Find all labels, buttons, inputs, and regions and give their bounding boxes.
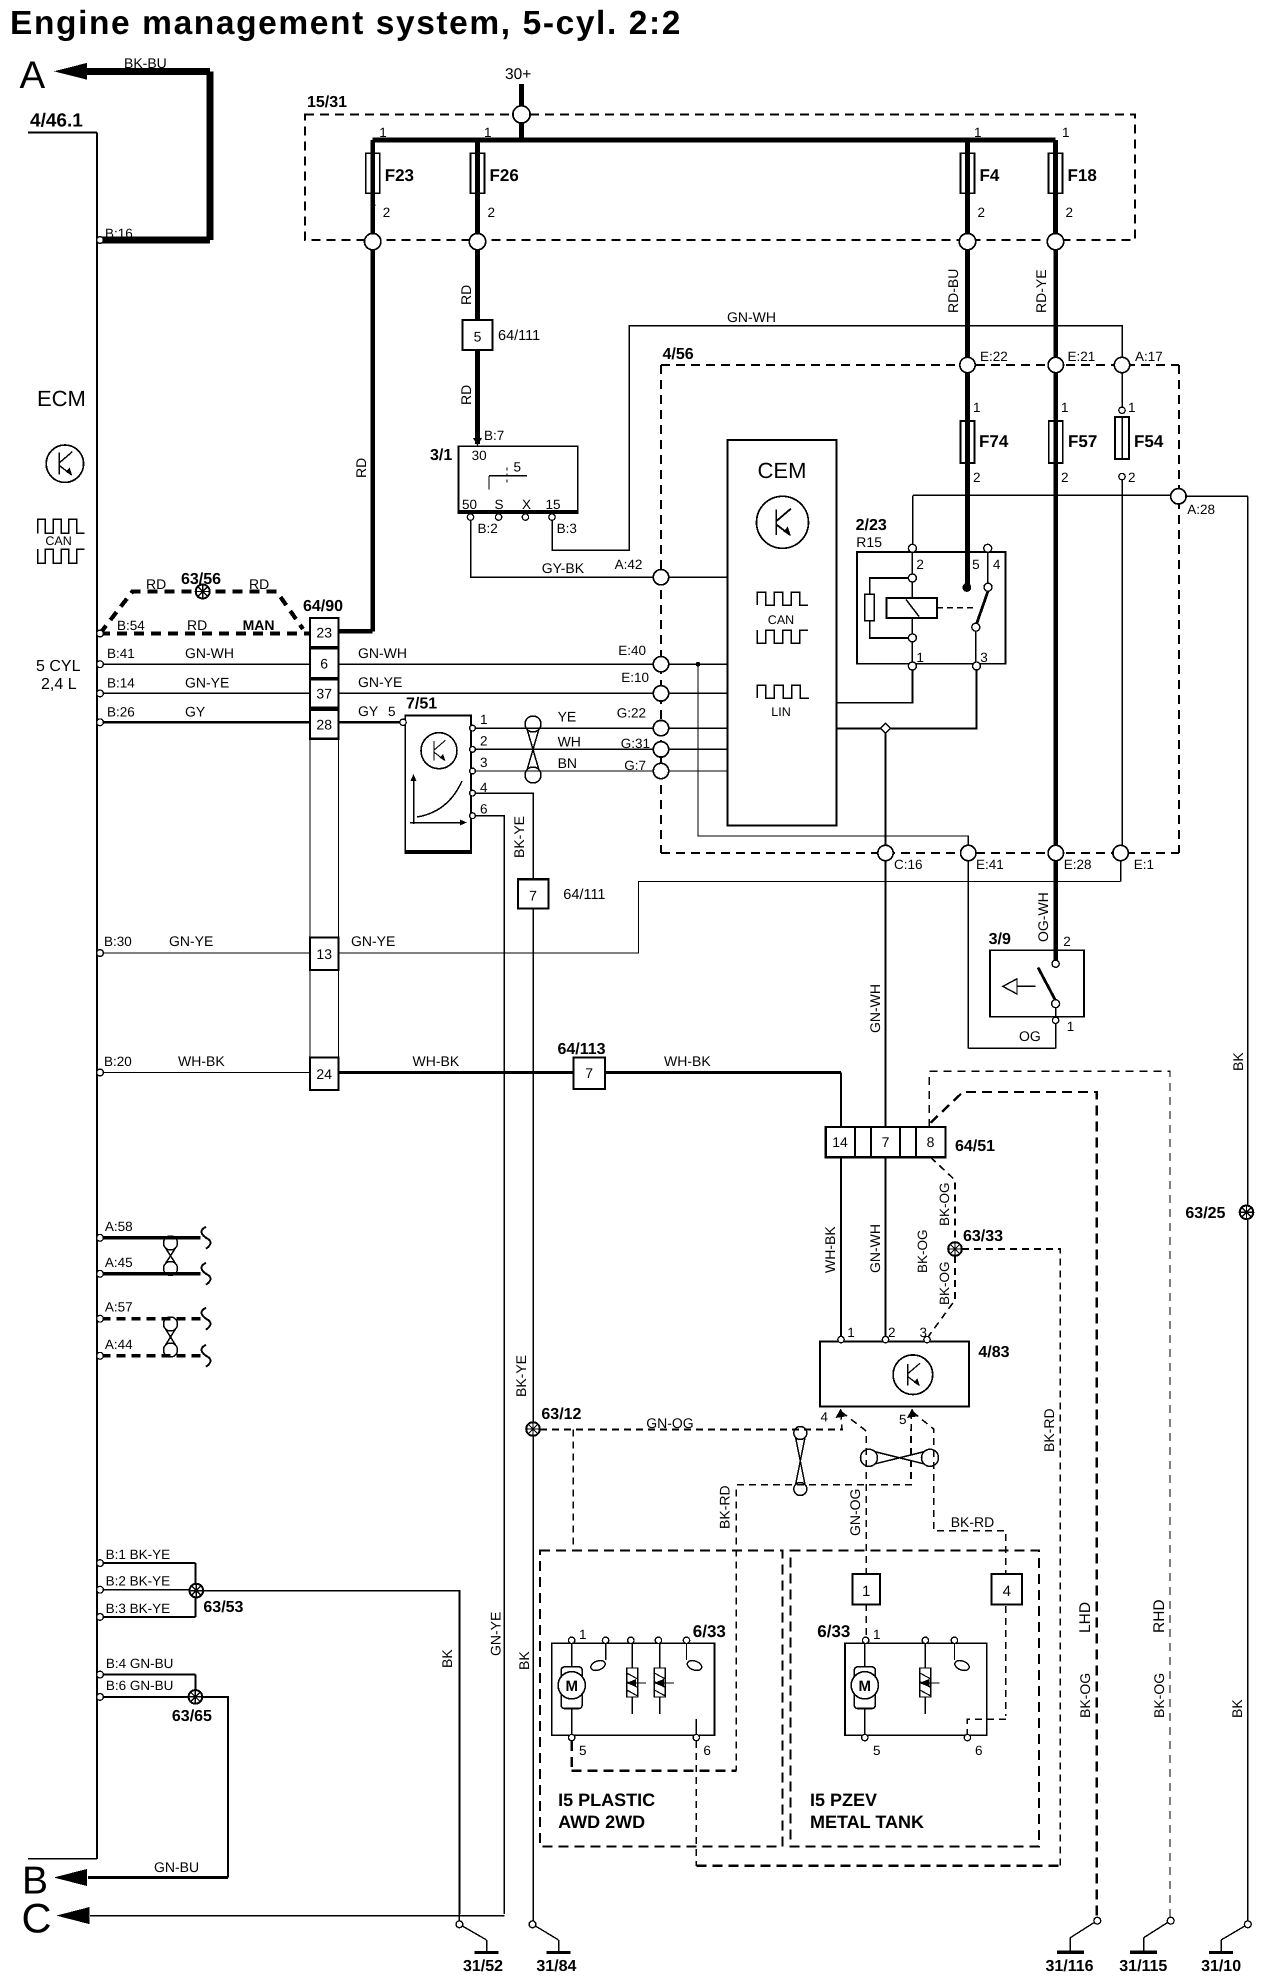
svg-text:S: S: [495, 497, 504, 512]
svg-text:63/25: 63/25: [1185, 1205, 1225, 1222]
svg-text:24: 24: [316, 1066, 332, 1082]
svg-text:63/53: 63/53: [203, 1599, 243, 1616]
svg-text:15/31: 15/31: [307, 94, 347, 111]
svg-text:RD: RD: [146, 576, 166, 592]
svg-text:15: 15: [546, 497, 561, 512]
svg-text:5: 5: [899, 1412, 907, 1427]
svg-text:E:28: E:28: [1064, 857, 1092, 872]
svg-text:7: 7: [585, 1065, 593, 1081]
svg-text:GN-WH: GN-WH: [867, 984, 883, 1033]
svg-text:37: 37: [316, 686, 332, 702]
svg-text:3: 3: [480, 755, 488, 770]
svg-text:6: 6: [480, 802, 488, 817]
svg-text:3: 3: [920, 1325, 928, 1340]
svg-text:BK-OG: BK-OG: [937, 1261, 952, 1305]
svg-text:ECM: ECM: [37, 386, 86, 411]
svg-text:E:22: E:22: [980, 349, 1008, 364]
svg-text:F23: F23: [385, 166, 414, 185]
svg-text:14: 14: [832, 1134, 848, 1150]
svg-text:BK-OG: BK-OG: [915, 1229, 930, 1273]
svg-text:A:17: A:17: [1135, 349, 1163, 364]
svg-text:GN-YE: GN-YE: [351, 933, 395, 949]
svg-text:2: 2: [488, 205, 496, 220]
svg-text:B:3: B:3: [557, 521, 577, 536]
svg-text:B:6 GN-BU: B:6 GN-BU: [106, 1678, 174, 1693]
svg-text:GN-OG: GN-OG: [646, 1415, 693, 1431]
svg-text:64/113: 64/113: [558, 1041, 606, 1058]
svg-text:31/52: 31/52: [463, 1958, 503, 1975]
svg-text:B:20: B:20: [104, 1054, 132, 1069]
svg-text:2: 2: [480, 734, 488, 749]
svg-text:1: 1: [480, 712, 488, 727]
svg-text:WH-BK: WH-BK: [822, 1226, 838, 1273]
svg-text:7: 7: [529, 888, 537, 904]
svg-text:1: 1: [862, 1583, 870, 1600]
svg-text:2: 2: [1066, 205, 1074, 220]
svg-text:3/1: 3/1: [430, 447, 452, 464]
svg-text:A:28: A:28: [1187, 502, 1215, 517]
svg-text:1: 1: [484, 125, 492, 140]
svg-text:OG-WH: OG-WH: [1035, 892, 1051, 942]
svg-text:BK-YE: BK-YE: [511, 816, 527, 858]
svg-text:RD: RD: [458, 285, 474, 305]
svg-text:BK: BK: [439, 1649, 455, 1668]
svg-text:RD-YE: RD-YE: [1033, 269, 1049, 313]
svg-text:5: 5: [474, 329, 482, 345]
svg-text:5: 5: [873, 1743, 881, 1758]
svg-text:63/12: 63/12: [541, 1406, 581, 1423]
svg-text:1: 1: [1067, 1019, 1075, 1034]
svg-text:6/33: 6/33: [693, 1622, 726, 1641]
svg-text:CEM: CEM: [758, 458, 807, 483]
svg-text:7: 7: [882, 1134, 890, 1150]
svg-text:31/10: 31/10: [1201, 1958, 1241, 1975]
svg-text:R15: R15: [856, 534, 882, 550]
svg-text:B:54: B:54: [117, 618, 145, 633]
svg-text:8: 8: [927, 1134, 935, 1150]
svg-text:CAN: CAN: [768, 613, 794, 627]
svg-text:F57: F57: [1068, 432, 1097, 451]
svg-text:E:21: E:21: [1068, 349, 1096, 364]
svg-text:BK-OG: BK-OG: [1151, 1673, 1167, 1718]
svg-text:6: 6: [703, 1743, 711, 1758]
svg-text:GY: GY: [358, 703, 379, 719]
svg-text:RD: RD: [458, 385, 474, 405]
svg-text:64/51: 64/51: [955, 1138, 995, 1155]
svg-text:F4: F4: [980, 166, 1000, 185]
svg-text:BK-RD: BK-RD: [1041, 1408, 1057, 1452]
svg-text:4: 4: [993, 557, 1001, 572]
svg-text:GN-WH: GN-WH: [358, 645, 407, 661]
svg-text:B:14: B:14: [107, 675, 135, 690]
svg-text:31/84: 31/84: [536, 1958, 576, 1975]
svg-text:4: 4: [820, 1410, 828, 1425]
svg-text:B:26: B:26: [107, 704, 135, 719]
svg-text:13: 13: [316, 946, 332, 962]
svg-text:WH-BK: WH-BK: [664, 1053, 711, 1069]
svg-text:3/9: 3/9: [989, 931, 1011, 948]
svg-text:2: 2: [383, 205, 391, 220]
svg-text:28: 28: [316, 716, 332, 732]
svg-text:A:44: A:44: [105, 1337, 133, 1352]
svg-text:BK: BK: [1229, 1699, 1245, 1718]
svg-text:31/115: 31/115: [1119, 1958, 1167, 1975]
svg-text:C: C: [22, 1895, 52, 1942]
svg-text:F74: F74: [979, 432, 1009, 451]
svg-text:B:2: B:2: [478, 521, 498, 536]
svg-text:LHD: LHD: [1077, 1602, 1094, 1633]
svg-text:5: 5: [972, 557, 980, 572]
svg-text:6: 6: [320, 655, 328, 671]
svg-text:2: 2: [916, 557, 924, 572]
svg-text:2: 2: [888, 1325, 896, 1340]
svg-text:CAN: CAN: [45, 534, 71, 548]
svg-text:BK-BU: BK-BU: [124, 55, 167, 71]
svg-text:B:1 BK-YE: B:1 BK-YE: [106, 1547, 171, 1562]
svg-text:63/33: 63/33: [963, 1228, 1003, 1245]
svg-text:B:16: B:16: [105, 226, 133, 241]
svg-text:RHD: RHD: [1151, 1599, 1168, 1633]
svg-text:64/111: 64/111: [563, 887, 605, 903]
svg-text:BK-RD: BK-RD: [717, 1485, 733, 1529]
svg-text:M: M: [565, 1678, 578, 1695]
svg-text:LIN: LIN: [771, 705, 790, 719]
svg-text:A:42: A:42: [615, 557, 643, 572]
svg-text:6/33: 6/33: [817, 1622, 850, 1641]
svg-text:A:45: A:45: [105, 1255, 133, 1270]
svg-text:1: 1: [1062, 125, 1070, 140]
svg-text:G:7: G:7: [624, 758, 646, 773]
svg-text:2: 2: [978, 205, 986, 220]
svg-text:GN-BU: GN-BU: [154, 1859, 199, 1875]
svg-text:WH-BK: WH-BK: [413, 1053, 460, 1069]
svg-text:I5 PLASTIC: I5 PLASTIC: [558, 1790, 655, 1810]
svg-text:2: 2: [973, 470, 981, 485]
svg-text:6: 6: [975, 1743, 983, 1758]
svg-text:5: 5: [514, 460, 522, 475]
svg-text:63/56: 63/56: [181, 571, 221, 588]
svg-text:RD: RD: [187, 617, 207, 633]
svg-text:G:22: G:22: [617, 706, 646, 721]
svg-text:B:3 BK-YE: B:3 BK-YE: [106, 1601, 171, 1616]
svg-text:GN-WH: GN-WH: [867, 1224, 883, 1273]
svg-text:5 CYL: 5 CYL: [36, 658, 81, 675]
svg-text:GY-BK: GY-BK: [542, 560, 585, 576]
svg-text:2: 2: [1063, 934, 1071, 949]
svg-text:GN-YE: GN-YE: [488, 1612, 504, 1656]
svg-text:A:58: A:58: [105, 1219, 133, 1234]
svg-text:7/51: 7/51: [406, 696, 437, 713]
svg-text:I5 PZEV: I5 PZEV: [810, 1790, 877, 1810]
svg-text:F54: F54: [1134, 432, 1164, 451]
svg-text:2/23: 2/23: [856, 517, 887, 534]
svg-text:WH: WH: [558, 734, 581, 750]
svg-text:2: 2: [1061, 470, 1069, 485]
svg-text:RD: RD: [353, 458, 369, 478]
svg-text:30: 30: [472, 448, 487, 463]
svg-text:1: 1: [973, 400, 981, 415]
svg-text:5: 5: [388, 704, 396, 719]
svg-text:63/65: 63/65: [172, 1708, 212, 1725]
svg-text:1: 1: [379, 125, 387, 140]
svg-text:B:41: B:41: [107, 646, 135, 661]
svg-text:B:4 GN-BU: B:4 GN-BU: [106, 1656, 174, 1671]
svg-text:4/83: 4/83: [978, 1344, 1009, 1361]
svg-text:30+: 30+: [505, 66, 531, 83]
svg-text:4/56: 4/56: [663, 346, 694, 363]
svg-text:METAL TANK: METAL TANK: [810, 1812, 924, 1832]
svg-text:1: 1: [1128, 400, 1136, 415]
svg-text:E:10: E:10: [621, 670, 649, 685]
svg-text:1: 1: [1061, 400, 1069, 415]
svg-text:31/116: 31/116: [1045, 1958, 1093, 1975]
svg-text:B:2 BK-YE: B:2 BK-YE: [106, 1574, 171, 1589]
svg-text:GN-YE: GN-YE: [185, 674, 229, 690]
svg-text:RD: RD: [249, 576, 269, 592]
svg-text:1: 1: [974, 125, 982, 140]
svg-text:2,4 L: 2,4 L: [41, 676, 77, 693]
svg-text:64/90: 64/90: [303, 598, 343, 615]
svg-text:AWD 2WD: AWD 2WD: [558, 1812, 645, 1832]
svg-text:GN-YE: GN-YE: [169, 933, 213, 949]
svg-text:64/111: 64/111: [498, 328, 540, 344]
svg-text:A:57: A:57: [105, 1300, 133, 1315]
svg-text:1: 1: [873, 1627, 881, 1642]
svg-text:G:31: G:31: [621, 736, 650, 751]
svg-text:50: 50: [462, 497, 477, 512]
svg-text:BK: BK: [1230, 1052, 1246, 1071]
svg-text:E:1: E:1: [1134, 857, 1154, 872]
svg-text:1: 1: [847, 1325, 855, 1340]
svg-text:WH-BK: WH-BK: [178, 1053, 225, 1069]
svg-text:BK-OG: BK-OG: [937, 1182, 952, 1226]
svg-text:GN-WH: GN-WH: [727, 309, 776, 325]
svg-text:A: A: [20, 54, 46, 97]
svg-text:F26: F26: [490, 166, 519, 185]
svg-text:1: 1: [916, 650, 924, 665]
svg-text:E:41: E:41: [976, 857, 1004, 872]
svg-text:RD-BU: RD-BU: [945, 269, 961, 313]
svg-text:BK-OG: BK-OG: [1077, 1673, 1093, 1718]
svg-text:Engine management system, 5-cy: Engine management system, 5-cyl. 2:2: [10, 5, 682, 42]
svg-text:GN-WH: GN-WH: [185, 645, 234, 661]
svg-text:OG: OG: [1019, 1028, 1041, 1044]
svg-text:BN: BN: [558, 755, 577, 771]
svg-text:3: 3: [980, 650, 988, 665]
svg-text:B:30: B:30: [104, 934, 132, 949]
svg-text:4: 4: [1003, 1583, 1011, 1600]
svg-text:23: 23: [316, 625, 332, 641]
svg-text:BK: BK: [516, 1651, 532, 1670]
svg-text:2: 2: [1128, 470, 1136, 485]
svg-text:GN-YE: GN-YE: [358, 674, 402, 690]
svg-text:X: X: [522, 497, 531, 512]
svg-text:1: 1: [579, 1627, 587, 1642]
svg-text:E:40: E:40: [618, 643, 646, 658]
svg-text:F18: F18: [1068, 166, 1097, 185]
svg-text:M: M: [859, 1678, 872, 1695]
svg-text:C:16: C:16: [894, 857, 923, 872]
svg-text:BK-YE: BK-YE: [513, 1355, 529, 1397]
svg-text:5: 5: [579, 1743, 587, 1758]
svg-text:GN-OG: GN-OG: [847, 1489, 863, 1536]
svg-text:4/46.1: 4/46.1: [30, 111, 83, 132]
svg-text:B:7: B:7: [484, 428, 504, 443]
svg-text:YE: YE: [558, 709, 577, 725]
svg-text:GY: GY: [185, 703, 206, 719]
svg-text:BK-RD: BK-RD: [951, 1514, 995, 1530]
svg-text:MAN: MAN: [243, 617, 275, 633]
